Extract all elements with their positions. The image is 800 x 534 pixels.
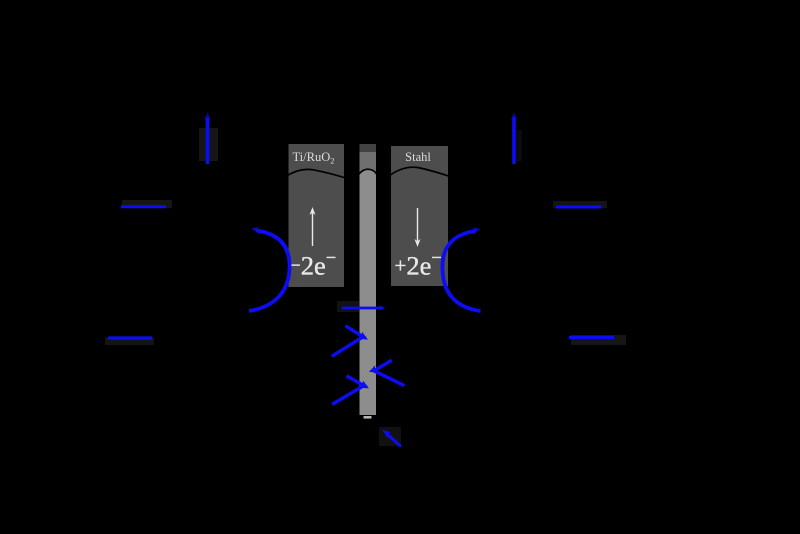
Na+ arrow through membrane (342, 305, 386, 311)
svg-text:Stahl: Stahl (405, 150, 431, 164)
label Ti/RuO2 (292, 150, 334, 166)
cathode down arrow (white) (415, 208, 421, 247)
inlet line bottom-left (blue horizontal) (108, 336, 152, 339)
svg-text:Ti/RuO2: Ti/RuO2 (292, 150, 334, 166)
membrane bottom mark (364, 416, 372, 419)
anode up arrow (white) (310, 207, 316, 246)
membrane pointer arrow (382, 430, 401, 447)
blocked ion chevron lower-left (332, 376, 369, 405)
label +2e- (395, 249, 442, 281)
inlet line bottom-right (blue horizontal) (569, 336, 614, 339)
membrane main strip (360, 169, 377, 415)
membrane upper dark section (360, 144, 377, 176)
gas outlet arrow left (blue vertical) (204, 113, 210, 165)
blocked ion chevron right (369, 360, 405, 386)
circulation arc left (249, 227, 290, 311)
gas outlet arrow right (blue vertical) (511, 113, 517, 165)
liquid surface wavy line (285, 167, 450, 178)
blocked ion chevron upper-left (332, 326, 368, 357)
circulation arc right (442, 228, 480, 312)
faint artifact patches (105, 128, 626, 446)
anode electrode Ti/RuO2 (289, 144, 345, 287)
label Stahl (405, 150, 431, 164)
label -2e- (290, 249, 336, 281)
cathode electrode Stahl (391, 146, 448, 286)
outlet line top-right (blue horizontal) (556, 206, 602, 209)
outlet line top-left (blue horizontal) (121, 205, 166, 208)
